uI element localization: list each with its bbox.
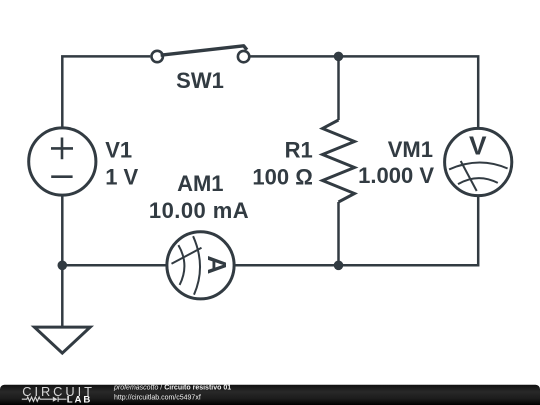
svg-text:http://circuitlab.com/c5497xf: http://circuitlab.com/c5497xf — [114, 394, 201, 401]
svg-text:V1: V1 — [105, 137, 132, 162]
svg-text:A: A — [202, 255, 232, 274]
svg-text:R1: R1 — [285, 138, 313, 163]
svg-text:SW1: SW1 — [176, 68, 224, 93]
svg-text:1.000 V: 1.000 V — [358, 163, 434, 188]
svg-text:V: V — [469, 130, 487, 160]
svg-text:10.00 mA: 10.00 mA — [149, 198, 249, 223]
svg-text:1 V: 1 V — [105, 165, 138, 190]
svg-text:VM1: VM1 — [388, 137, 433, 162]
svg-text:profemascotto / Circuito resis: profemascotto / Circuito resistivo 01 — [113, 385, 231, 392]
svg-text:100 Ω: 100 Ω — [252, 164, 312, 189]
svg-text:AM1: AM1 — [177, 171, 223, 196]
svg-text:LAB: LAB — [67, 395, 92, 405]
